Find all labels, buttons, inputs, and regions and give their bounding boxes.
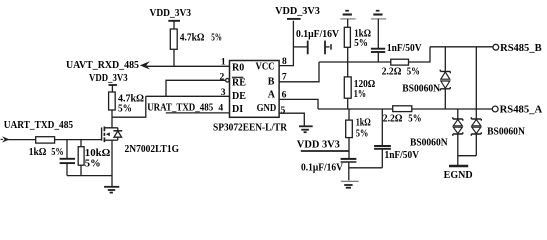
svg-text:4.7kΩ: 4.7kΩ bbox=[180, 32, 205, 43]
label BS0060N third bbox=[487, 126, 526, 137]
svg-text:VCC: VCC bbox=[256, 62, 275, 73]
capacitor gate filter bbox=[60, 140, 75, 176]
svg-text:5%: 5% bbox=[118, 104, 132, 115]
resistor 1kOhm series gate bbox=[29, 137, 64, 158]
svg-text:1%: 1% bbox=[354, 89, 366, 100]
resistor 4.7kOhm drain pull-up bbox=[109, 92, 144, 117]
svg-text:5%: 5% bbox=[211, 33, 222, 44]
ground middle bbox=[341, 181, 359, 187]
svg-text:5%: 5% bbox=[407, 67, 420, 78]
net label URAT_TXD_485 and wire pin4 DI bbox=[147, 102, 229, 113]
transistor 2N7002LT1G bbox=[102, 117, 180, 186]
svg-text:VDD_3V3: VDD_3V3 bbox=[275, 6, 320, 17]
TVS diode BS0060N B to EGND bbox=[458, 47, 482, 156]
ground pin5 bbox=[299, 126, 313, 132]
svg-text:10kΩ: 10kΩ bbox=[85, 148, 111, 159]
resistor 10kOhm pulldown bbox=[78, 140, 110, 176]
power rail VDD 3V3 bottom bbox=[297, 139, 349, 151]
svg-text:7: 7 bbox=[282, 71, 287, 82]
svg-text:5%: 5% bbox=[354, 38, 368, 49]
wire cap bottom to 1nF bottom bbox=[349, 167, 383, 169]
resistor 120Ohm termination bbox=[344, 62, 375, 109]
svg-text:2: 2 bbox=[220, 72, 225, 83]
svg-text:DI: DI bbox=[232, 104, 243, 115]
wire pin5 GND bbox=[279, 105, 304, 126]
wire gate node bbox=[55, 139, 102, 141]
wire pin7 B with jog bbox=[279, 62, 319, 82]
wire B line bbox=[319, 61, 391, 63]
net label UART_TXD_485 with right arrow bbox=[1, 120, 74, 142]
svg-text:URAT_TXD_485: URAT_TXD_485 bbox=[147, 102, 213, 113]
resistor 2.2Ohm series A bbox=[383, 106, 492, 125]
svg-text:1: 1 bbox=[221, 56, 226, 67]
ground bar symbol top right 2 bbox=[371, 11, 386, 49]
svg-text:1kΩ: 1kΩ bbox=[29, 147, 47, 158]
svg-text:5%: 5% bbox=[85, 158, 101, 169]
power symbol VDD_3V3 top middle bbox=[275, 6, 320, 19]
svg-text:5%: 5% bbox=[51, 147, 63, 158]
svg-text:8: 8 bbox=[282, 56, 287, 67]
power symbol VDD_3V3 second bbox=[89, 73, 128, 92]
svg-text:SP3072EEN-L/TR: SP3072EEN-L/TR bbox=[213, 123, 288, 134]
capacitor 1nF/50V on B bbox=[371, 43, 422, 62]
TVS diode BS0060N A to EGND bbox=[453, 109, 463, 166]
svg-text:DE: DE bbox=[232, 91, 246, 102]
resistor 4.7kOhm pull-up on R0 line bbox=[170, 29, 222, 67]
svg-text:0.1μF/16V: 0.1μF/16V bbox=[296, 29, 340, 40]
TVS diode BS0060N between B and A bbox=[440, 47, 450, 109]
svg-text:R0: R0 bbox=[232, 63, 244, 74]
svg-text:VDD_3V3: VDD_3V3 bbox=[89, 73, 128, 84]
svg-text:5%: 5% bbox=[408, 114, 421, 125]
wire input to gate resistor bbox=[7, 139, 36, 141]
wire to RS485_B terminal bbox=[430, 43, 542, 54]
wire bottom rail to source bbox=[67, 175, 112, 177]
label BS0060N second bbox=[410, 137, 448, 148]
power bar EGND bbox=[444, 166, 473, 181]
svg-text:RS485_A: RS485_A bbox=[500, 105, 543, 116]
svg-text:6: 6 bbox=[282, 89, 287, 100]
svg-text:UAVT_RXD_485: UAVT_RXD_485 bbox=[66, 60, 139, 71]
wire pin1 R0 bbox=[147, 56, 230, 67]
svg-text:1nF/50V: 1nF/50V bbox=[387, 43, 422, 54]
svg-text:RS485_B: RS485_B bbox=[500, 43, 542, 54]
wire pin8 VCC bbox=[279, 21, 293, 67]
power symbol VDD_3V3 top-left bbox=[150, 8, 192, 29]
capacitor 1nF/50V on A bbox=[374, 109, 420, 168]
svg-text:BS0060N: BS0060N bbox=[487, 126, 526, 137]
svg-text:EGND: EGND bbox=[444, 170, 473, 181]
resistor 2.2Ohm series B bbox=[382, 47, 430, 78]
wire pin3 DE bbox=[146, 87, 230, 98]
net label UAVT_RXD_485 with left arrow bbox=[66, 60, 150, 71]
resistor 1kOhm pull A bbox=[346, 109, 371, 159]
wire pin2 RE tied to DE bbox=[166, 72, 229, 97]
svg-text:GND: GND bbox=[257, 103, 277, 114]
capacitor 0.1uF/16V on VCC bbox=[293, 29, 339, 55]
svg-text:1kΩ: 1kΩ bbox=[356, 118, 371, 129]
svg-text:3: 3 bbox=[221, 87, 226, 98]
capacitor 0.1uF/16V bottom bbox=[301, 159, 356, 180]
ground left bbox=[104, 187, 119, 193]
svg-text:2N7002LT1G: 2N7002LT1G bbox=[125, 144, 180, 155]
svg-text:0.1μF/16V: 0.1μF/16V bbox=[301, 163, 344, 174]
svg-text:VDD 3V3: VDD 3V3 bbox=[297, 139, 340, 150]
IC U1 SP3072EEN-L/TR box bbox=[213, 61, 288, 134]
terminal RS485_A bbox=[492, 105, 543, 116]
svg-text:B: B bbox=[268, 76, 275, 87]
svg-text:VDD_3V3: VDD_3V3 bbox=[150, 8, 192, 19]
svg-text:A: A bbox=[268, 89, 276, 100]
svg-text:5%: 5% bbox=[356, 129, 369, 140]
svg-text:2.2Ω: 2.2Ω bbox=[383, 114, 403, 125]
svg-text:4: 4 bbox=[218, 102, 223, 113]
svg-text:5: 5 bbox=[281, 105, 286, 116]
resistor 1kOhm pull B bbox=[344, 27, 371, 62]
wire A line bbox=[318, 108, 393, 110]
svg-text:2.2Ω: 2.2Ω bbox=[382, 67, 402, 78]
wire drain node up to DE line bbox=[112, 96, 146, 117]
svg-text:UART_TXD_485: UART_TXD_485 bbox=[4, 120, 73, 131]
ground bar symbol top right 1 bbox=[340, 11, 355, 28]
wire pin6 A with jog bbox=[279, 89, 318, 109]
svg-text:BS0060N: BS0060N bbox=[402, 83, 441, 94]
svg-text:1nF/50V: 1nF/50V bbox=[385, 150, 420, 161]
svg-text:BS0060N: BS0060N bbox=[410, 137, 448, 148]
label BS0060N first bbox=[402, 83, 441, 94]
svg-text:RE: RE bbox=[232, 78, 246, 89]
